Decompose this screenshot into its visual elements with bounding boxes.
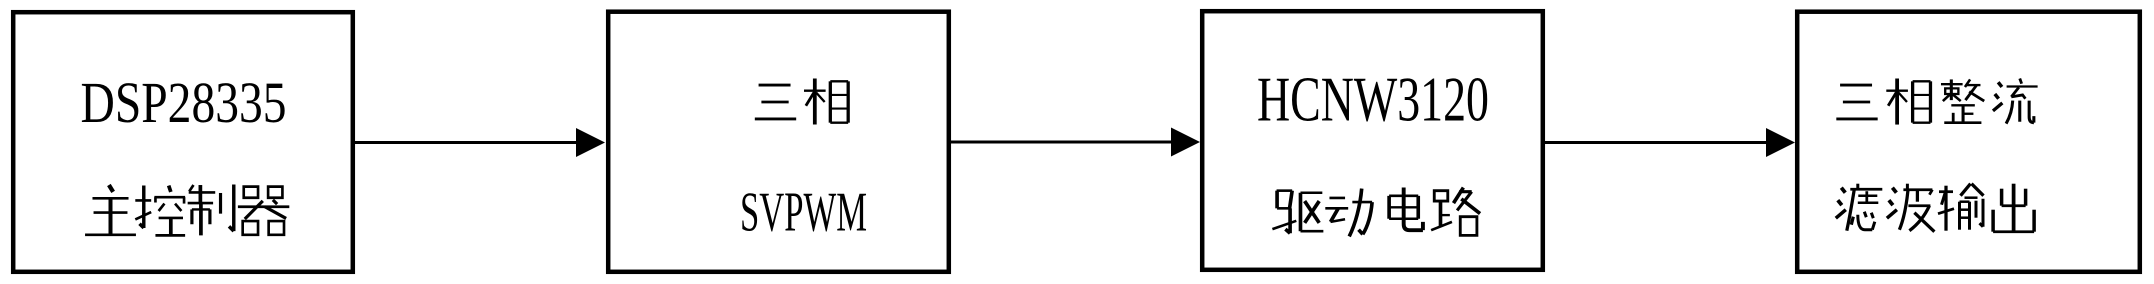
svg-text:HCNW3120: HCNW3120 — [1257, 65, 1489, 135]
svg-text:SVPWM: SVPWM — [740, 182, 867, 244]
label 驱动电路 box3 line2 — [1272, 188, 1480, 237]
svg-text:DSP28335: DSP28335 — [81, 70, 287, 135]
block box2 SVPWM — [608, 12, 949, 272]
label 主控制器 box1 line2 — [85, 185, 289, 236]
wire arrow3 box3 to box4 — [1542, 128, 1795, 157]
block box4 output — [1797, 12, 2140, 272]
label 三相整流 box4 line1 — [1836, 79, 2037, 125]
label 三相 box2 line1 — [755, 79, 848, 125]
block box1 DSP28335 controller — [13, 12, 353, 272]
block box3 driver — [1202, 11, 1543, 270]
wire arrow1 box1 to box2 — [355, 128, 605, 157]
wire arrow2 box2 to box3 — [950, 128, 1200, 157]
label 滤波输出 box4 line2 — [1836, 184, 2034, 232]
